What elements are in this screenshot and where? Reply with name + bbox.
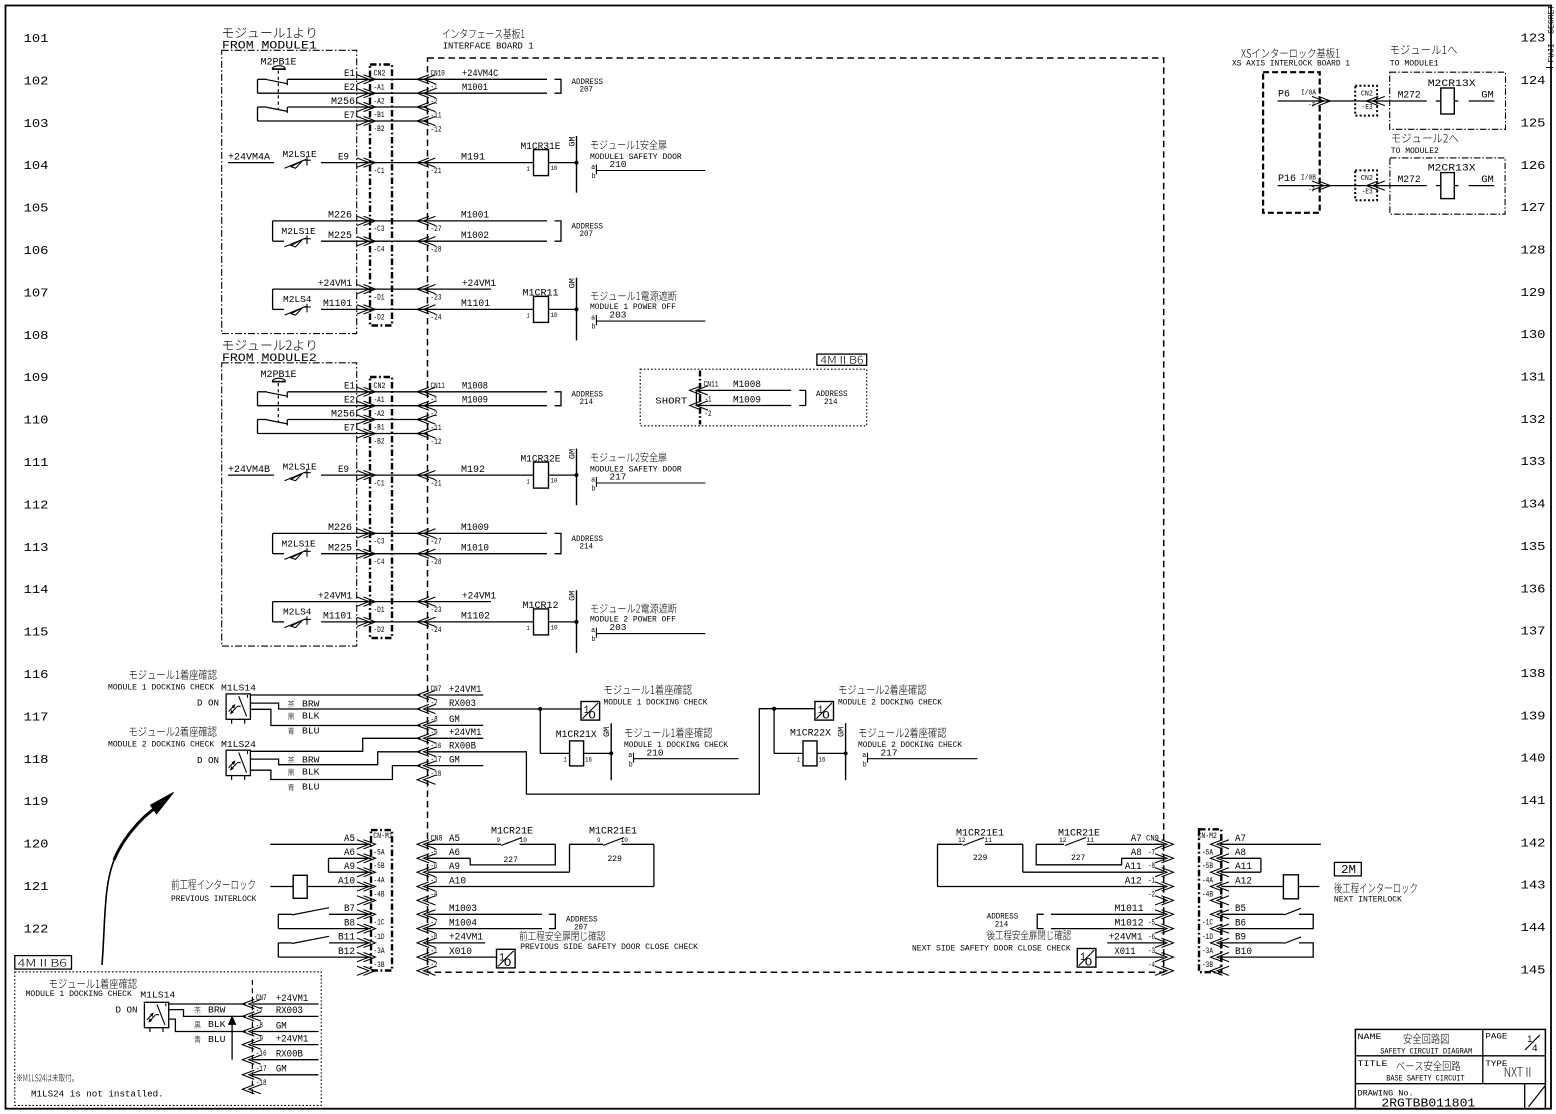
module2 limit switch M2LS1E symbol (row E9) — [304, 472, 311, 474]
CN-M2 pin arrow (female) — [1211, 854, 1230, 863]
wire A8 (interface side) — [1122, 857, 1164, 859]
module1 wire E1 — [288, 78, 548, 80]
svg-text:-C3: -C3 — [374, 538, 385, 547]
wire to M1CR22X pin 1 — [774, 752, 803, 754]
svg-text:M1101: M1101 — [323, 298, 352, 309]
CN-M2 pin arrow (female) — [1211, 924, 1230, 933]
svg-text:9: 9 — [597, 837, 601, 844]
connector CN7 line (variant, dashed) — [251, 980, 253, 1096]
module2 relay coil M1CR12 — [534, 609, 549, 635]
CN9 pin arrow (male) — [1155, 840, 1174, 849]
CN8 pin arrow (female) — [417, 910, 436, 919]
wire CN7-8 GM — [428, 724, 484, 726]
module1 contact pair E1/E2 bracket — [257, 79, 259, 93]
proximity sensor M1LS14 symbol — [239, 696, 247, 716]
module1 limit switch M2LS4 symbol — [306, 304, 308, 313]
module1 contact pair M226/M225 bracket — [272, 221, 274, 241]
module1 CN2 pin arrow (male) — [357, 285, 376, 294]
CN-M1 pin arrow (male) — [357, 882, 376, 891]
proximity sensor M1LS14 symbol (variant) — [151, 1013, 153, 1016]
module1 limit switch M2LS4 symbol — [304, 306, 311, 308]
CN9 pin arrow (male) — [1155, 896, 1174, 905]
svg-text:M1001: M1001 — [462, 81, 488, 93]
module1 wire M226 — [273, 220, 428, 222]
svg-text:CN-M2: CN-M2 — [1198, 833, 1217, 842]
svg-text:INTERFACE BOARD 1: INTERFACE BOARD 1 — [443, 40, 534, 51]
svg-text:CN11: CN11 — [704, 381, 719, 390]
wire A10 (interface side) — [428, 886, 654, 888]
svg-text:M1011: M1011 — [1115, 903, 1144, 914]
label next interlock (JP) — [1334, 882, 1417, 893]
module2 limit switch M2LS4 symbol — [285, 619, 307, 628]
module2 contact pair M256/E7 bracket — [257, 420, 259, 434]
module2 wire M226 — [273, 532, 428, 534]
svg-text:GM: GM — [276, 1020, 287, 1032]
svg-text:CN-M1: CN-M1 — [373, 833, 392, 842]
module2 CN2 pin arrow (male) — [357, 597, 376, 606]
CN8 pin arrow (female) — [417, 854, 436, 863]
relay coil M2CR13X — [1441, 173, 1455, 199]
module1 CN2 pin arrow (male) — [357, 102, 376, 111]
svg-text:10: 10 — [551, 624, 558, 631]
svg-text:-1D: -1D — [1202, 933, 1213, 942]
colour label BLK (black, M1LS24) — [288, 769, 294, 776]
connector CN11 line (SHORT variant, dash-dot) — [699, 371, 701, 425]
svg-text:+24VM1: +24VM1 — [318, 278, 352, 289]
svg-text:I/0A: I/0A — [1301, 89, 1317, 98]
connector CN2 box (XS, dotted) — [1355, 170, 1377, 200]
svg-text:-28: -28 — [431, 558, 442, 567]
relay coil M2CR13X — [1441, 88, 1455, 114]
svg-text:106: 106 — [24, 244, 49, 258]
svg-text:-3: -3 — [431, 877, 438, 886]
svg-text:A7: A7 — [1131, 833, 1142, 844]
svg-text:-6: -6 — [431, 862, 438, 871]
svg-text:A8: A8 — [1235, 847, 1246, 858]
svg-text:E2: E2 — [344, 82, 355, 93]
CN-M2 pin arrow (female) — [1211, 953, 1230, 962]
svg-text:-21: -21 — [431, 167, 442, 176]
svg-text:-3A: -3A — [1202, 947, 1213, 956]
wire loop 229 (down to A10) — [653, 844, 655, 886]
module2 wire E2 — [258, 405, 548, 407]
svg-text:M226: M226 — [328, 523, 352, 534]
relay M2CR13X pin stubs — [1436, 100, 1441, 102]
label next side safety door close check (JP) — [987, 930, 1071, 940]
svg-text:-7: -7 — [431, 699, 438, 708]
module1 wire relay M1CR11 to GM rail — [549, 308, 577, 310]
svg-text:B6: B6 — [1235, 917, 1246, 928]
module1 limit switch M2LS1E symbol (row E9) — [304, 159, 311, 161]
svg-text:207: 207 — [580, 86, 594, 94]
svg-text:136: 136 — [1521, 582, 1546, 596]
wire B9 (next stage side) — [1221, 942, 1284, 944]
svg-text:128: 128 — [1521, 243, 1546, 257]
wire CN7-17 GM — [428, 765, 484, 767]
module2 limit switch M2LS1E symbol (row E9) — [306, 470, 308, 479]
module2 wire M225 stub — [273, 553, 284, 555]
CN11 pin arrow (female) — [690, 401, 709, 410]
svg-text:GM: GM — [276, 1063, 287, 1075]
module1 CN2 pin arrow (male) — [357, 75, 376, 84]
label module-2 docking check (JP) — [130, 726, 217, 736]
svg-text:-C4: -C4 — [374, 246, 385, 255]
svg-text:-7: -7 — [1148, 848, 1155, 857]
wire A5 after contact — [520, 843, 556, 845]
wire B8 — [278, 928, 371, 930]
svg-text:203: 203 — [609, 310, 626, 321]
CN7 pin arrow (female) -17 — [417, 761, 436, 770]
CN8 pin arrow (female) — [417, 840, 436, 849]
svg-text:-C1: -C1 — [374, 480, 385, 489]
svg-text:M1009: M1009 — [461, 522, 489, 533]
module1 pushbutton M2PB1E mushroom head — [272, 66, 285, 69]
wire +24VM1 (row B11) — [428, 942, 486, 944]
CN7 pin arrow (variant) -9 — [242, 1040, 260, 1049]
proximity sensor M1LS14 symbol (variant) — [162, 1028, 164, 1032]
contact blade (B7 row) — [278, 913, 292, 915]
svg-text:b: b — [592, 636, 596, 644]
svg-text:CN8: CN8 — [431, 835, 443, 844]
svg-text:+24VM1: +24VM1 — [1109, 931, 1143, 942]
wire B11 — [329, 942, 371, 944]
module1 coil contact reference M1CR11 page 203 — [596, 320, 705, 322]
svg-text:CN10: CN10 — [431, 70, 445, 79]
address bracket 214 (rows B5/B6 right) — [1037, 914, 1044, 928]
coil contact reference M1CR22X page 217 — [867, 753, 869, 763]
svg-text:RX00B: RX00B — [449, 740, 476, 752]
colour label BLU (variant) — [194, 1036, 200, 1043]
colour label BLU (blue, M1LS24) — [288, 784, 294, 791]
wire A7 (interface side) — [1087, 843, 1164, 845]
svg-text:-A1: -A1 — [374, 396, 385, 405]
module2 CN2 pin arrow (male) — [357, 387, 376, 396]
svg-text:E9: E9 — [338, 151, 349, 162]
label: module-1 source header (JP) — [223, 27, 315, 38]
svg-text:B5: B5 — [1235, 903, 1246, 914]
module2 CN11 pin arrow (female) — [417, 387, 436, 396]
I/O flag previous side safety door — [498, 951, 514, 967]
proximity sensor M1LS14 symbol (variant) — [155, 1014, 159, 1016]
module1 coil contact reference M1CR31E page 210 — [596, 170, 705, 172]
svg-text:4: 4 — [1532, 1043, 1538, 1055]
svg-text:NAME: NAME — [1358, 1032, 1382, 1042]
svg-text:GM: GM — [449, 754, 460, 766]
wire CN11-1 (SHORT variant, M1008) — [696, 389, 791, 391]
svg-text:M1CR12: M1CR12 — [523, 601, 559, 612]
svg-text:FUJI SECRET: FUJI SECRET — [1548, 5, 1556, 63]
CN7 pin arrow (female) -18 — [417, 775, 436, 784]
I/O flag module-2 docking check — [815, 702, 834, 721]
svg-text:E2: E2 — [344, 394, 355, 405]
svg-text:-1: -1 — [431, 83, 438, 92]
module1 wire M256 — [288, 106, 428, 108]
module2 CN11 pin arrow row E9 (female) — [417, 471, 436, 480]
title block column divider (row 3) — [1524, 1084, 1526, 1109]
svg-text:-1C: -1C — [374, 919, 385, 928]
svg-text:203: 203 — [609, 622, 626, 633]
module1 wire M225 stub — [273, 240, 284, 242]
module2 CN2 pin arrow (male) — [357, 617, 376, 626]
module1 coil contact reference M1CR31E page 210 — [595, 165, 597, 175]
module2 wire M192 — [428, 474, 534, 476]
wire after M1CR21E1 — [622, 843, 654, 845]
CN-M2 pin arrow (female) — [1211, 868, 1230, 877]
module2 wire +24VM1 (module side) — [273, 601, 428, 603]
svg-text:114: 114 — [24, 583, 49, 597]
svg-text:M1001: M1001 — [461, 209, 489, 220]
XS interlock board box (dashed bold) — [1263, 72, 1320, 213]
wire stub (variant row -9) — [252, 1044, 318, 1046]
svg-text:MODULE 1 DOCKING CHECK: MODULE 1 DOCKING CHECK — [26, 990, 132, 999]
CN-M2 pin arrow (female) — [1211, 966, 1230, 975]
svg-text:M1009: M1009 — [462, 394, 488, 406]
svg-text:-7: -7 — [256, 1007, 263, 1016]
I/O flag module-1 docking check — [581, 702, 600, 721]
title block outer frame — [1355, 1029, 1545, 1109]
svg-text:-1: -1 — [431, 396, 438, 405]
svg-text:134: 134 — [1521, 497, 1546, 511]
svg-text:-12: -12 — [431, 438, 442, 447]
proximity sensor M1LS14 symbol — [247, 695, 249, 698]
svg-text:CN2: CN2 — [1361, 175, 1373, 183]
svg-text:-24: -24 — [431, 626, 442, 635]
svg-text:M1CR11: M1CR11 — [523, 289, 559, 300]
svg-text:-B1: -B1 — [374, 111, 385, 120]
module1 coil contact reference M1CR11 page 203 — [595, 315, 597, 325]
loop bracket A8/A11 (right) — [1260, 858, 1262, 872]
wire M1CR22X to GM rail — [817, 752, 846, 754]
svg-text:BLU: BLU — [302, 782, 319, 793]
CN7 pin arrow (female) -7 — [417, 704, 436, 713]
svg-text:B8: B8 — [344, 917, 355, 928]
svg-text:TO MODULE2: TO MODULE2 — [1391, 147, 1439, 156]
GM power rail (M1CR21X) — [610, 723, 612, 780]
svg-text:M2LS1E: M2LS1E — [282, 539, 317, 550]
svg-text:-23: -23 — [431, 606, 442, 615]
svg-text:NEXT SIDE SAFETY DOOR CLOSE CH: NEXT SIDE SAFETY DOOR CLOSE CHECK — [912, 944, 1071, 953]
CN-M2 pin arrow (female) — [1211, 910, 1230, 919]
svg-text:E7: E7 — [344, 109, 355, 120]
CN-M1 pin arrow (male) — [357, 924, 376, 933]
svg-text:120: 120 — [24, 837, 49, 851]
svg-text:227: 227 — [504, 856, 519, 865]
wire RX003 to I/O symbol — [540, 708, 581, 710]
module2 address bracket 214 (top) — [555, 392, 562, 406]
svg-text:M1102: M1102 — [461, 611, 490, 622]
svg-text:129: 129 — [1521, 286, 1546, 300]
contact M1CR21E blade (right) — [1065, 838, 1086, 846]
I/O flag next side safety door — [1077, 949, 1096, 968]
svg-text:116: 116 — [24, 668, 49, 682]
module2 wire relay M1CR32E to GM rail — [549, 474, 577, 476]
CN9 pin arrow (male) — [1155, 953, 1174, 962]
wire RX003 — [428, 708, 541, 710]
svg-text:-5: -5 — [1148, 919, 1155, 928]
svg-text:229: 229 — [973, 854, 988, 863]
module1 limit switch M2LS1E symbol (row E9) — [306, 157, 308, 166]
svg-text:M256: M256 — [331, 97, 355, 108]
svg-text:CN7: CN7 — [431, 685, 442, 694]
svg-text:1: 1 — [527, 478, 531, 486]
svg-text:B10: B10 — [1235, 946, 1252, 957]
CN-M2 pin arrow (female) — [1211, 840, 1230, 849]
svg-text:-2: -2 — [431, 410, 438, 419]
svg-text:-1: -1 — [431, 947, 438, 956]
svg-text:M2CR13X: M2CR13X — [1428, 163, 1477, 174]
svg-text:118: 118 — [24, 753, 49, 767]
module1 GM power rail (safety door row) — [576, 136, 578, 193]
module2 wire relay M1CR12 to GM rail — [549, 621, 577, 623]
svg-text:M1101: M1101 — [461, 298, 490, 309]
svg-text:112: 112 — [24, 498, 49, 512]
svg-text:-3: -3 — [1148, 947, 1155, 956]
colour label BRW (variant) — [194, 1006, 200, 1013]
wire B12 — [278, 956, 371, 958]
svg-text:-27: -27 — [431, 225, 442, 234]
svg-text:MODULE 1 DOCKING CHECK: MODULE 1 DOCKING CHECK — [604, 698, 708, 707]
svg-text:M226: M226 — [328, 211, 352, 222]
svg-text:139: 139 — [1521, 709, 1546, 723]
wire M1LS14 to CN7 (variant) — [169, 1003, 246, 1005]
svg-text:2M: 2M — [1341, 863, 1356, 876]
svg-text:E1: E1 — [344, 68, 355, 79]
junction node (M1CR21X GM) — [609, 751, 613, 755]
label XS axis interlock board 1 (JP) — [1241, 48, 1339, 58]
wire loop 227 (A5 to A6) — [470, 844, 555, 865]
svg-text:-8: -8 — [431, 716, 438, 725]
contact bracket B5/B6 — [1221, 914, 1313, 928]
svg-text:GM: GM — [449, 714, 460, 726]
svg-text:M2CR13X: M2CR13X — [1428, 78, 1477, 89]
svg-text:144: 144 — [1521, 921, 1546, 935]
svg-text:MODULE 2 DOCKING CHECK: MODULE 2 DOCKING CHECK — [858, 741, 962, 750]
svg-text:X011: X011 — [1115, 945, 1136, 957]
wire M1011 — [1051, 913, 1164, 915]
module1 address bracket 207 (middle) — [555, 221, 562, 241]
svg-text:BLK: BLK — [302, 767, 320, 778]
module1 pushbutton contact blade (M256 row) — [267, 107, 288, 111]
module2 limit switch M2LS4 symbol — [306, 616, 308, 625]
svg-text:-3B: -3B — [1202, 961, 1213, 970]
svg-text:10: 10 — [551, 312, 558, 319]
title block type value NXT II — [1505, 1067, 1530, 1076]
junction node (M1CR22X GM) — [844, 751, 848, 755]
title block title value (JP) base safety circuit — [1397, 1061, 1461, 1071]
svg-text:+24VM1: +24VM1 — [462, 590, 496, 601]
svg-text:CN11: CN11 — [431, 382, 446, 391]
wire A11 riser — [1022, 844, 1024, 872]
module2 pushbutton contact blade (M256 row) — [267, 420, 288, 424]
svg-text:M192: M192 — [461, 465, 485, 476]
svg-text:-4B: -4B — [374, 891, 385, 900]
module2 wire M1101 stub — [273, 621, 284, 623]
svg-text:a: a — [628, 752, 633, 760]
module1 wire +24VM1 (module side) — [273, 288, 428, 290]
CN-M2 pin arrow (female) — [1211, 882, 1230, 891]
module1 pushbutton contact blade (E1 row) — [267, 80, 288, 84]
module1 junction node (safety door row) — [575, 161, 579, 165]
module1 limit switch M2LS1E symbol (row M225) — [291, 239, 303, 247]
title block name value (JP) safety circuit diagram — [1404, 1033, 1449, 1043]
wire +24VM1 (row B9 right) — [1107, 942, 1164, 944]
colour label BLK (variant) — [194, 1021, 200, 1028]
svg-text:A7: A7 — [1235, 833, 1246, 844]
svg-text:117: 117 — [24, 710, 49, 724]
wire A11 (next stage side) — [1221, 871, 1261, 873]
svg-text:11: 11 — [985, 837, 993, 844]
wire A6 (interface side) — [428, 857, 471, 859]
relay coil M1CR22X — [803, 741, 817, 766]
svg-text:MODULE 1 DOCKING CHECK: MODULE 1 DOCKING CHECK — [624, 741, 728, 750]
svg-text:B11: B11 — [338, 931, 355, 942]
CN9 pin arrow (male) — [1155, 938, 1174, 947]
svg-text:O: O — [504, 957, 511, 970]
svg-text:-8: -8 — [256, 1022, 263, 1031]
wire stub (variant row CN7) — [252, 1003, 318, 1005]
svg-text:207: 207 — [580, 231, 594, 239]
proximity sensor M1LS14 symbol — [231, 719, 233, 723]
svg-text:137: 137 — [1521, 624, 1546, 638]
CN8 pin arrow (female) — [417, 896, 436, 905]
svg-text:M272: M272 — [1398, 174, 1421, 185]
svg-text:-A2: -A2 — [374, 410, 385, 419]
CN9 pin arrow (male) — [1155, 854, 1174, 863]
wire X010 to I/O — [428, 956, 497, 958]
svg-text:MODULE 2 DOCKING CHECK: MODULE 2 DOCKING CHECK — [108, 740, 214, 749]
wire M1CR21X to GM rail — [584, 752, 612, 754]
module1 wire M1002 — [428, 240, 548, 242]
svg-text:-D1: -D1 — [374, 606, 385, 615]
proximity sensor M1LS14 symbol (variant) — [149, 1015, 155, 1022]
CN-M2 pin arrow (female) — [1211, 896, 1230, 905]
svg-text:MODULE 2 POWER OFF: MODULE 2 POWER OFF — [590, 615, 676, 624]
svg-text:-4A: -4A — [1202, 877, 1213, 886]
module1 limit switch M2LS4 symbol — [285, 306, 307, 315]
CN-M1 pin arrow (male) — [357, 868, 376, 877]
svg-text:-2: -2 — [431, 98, 438, 107]
wire A9 riser to contact row — [569, 844, 571, 872]
proximity sensor M1LS24 symbol — [244, 776, 246, 780]
contact blade (B11 row) — [278, 942, 292, 944]
svg-text:-1D: -1D — [374, 933, 385, 942]
wire riser to I/O symbol (module2) — [774, 708, 815, 710]
svg-text:+24VM1: +24VM1 — [449, 727, 482, 739]
proximity sensor M1LS14 symbol (variant) — [165, 1003, 167, 1006]
svg-text:12: 12 — [1059, 837, 1067, 844]
wire GM (to module) — [1469, 185, 1495, 187]
svg-text:M1012: M1012 — [1115, 917, 1144, 928]
wire A6 (module side) — [329, 857, 372, 859]
svg-text:-D1: -D1 — [374, 294, 385, 303]
svg-text:MODULE1 SAFETY DOOR: MODULE1 SAFETY DOOR — [590, 153, 682, 162]
svg-text:M1CR31E: M1CR31E — [521, 141, 561, 152]
svg-text:b: b — [863, 761, 867, 769]
CN9 pin arrow (male) — [1155, 910, 1174, 919]
module1 CN2 pin arrow (male) — [357, 237, 376, 246]
svg-text:SAFETY CIRCUIT DIAGRAM: SAFETY CIRCUIT DIAGRAM — [1380, 1048, 1472, 1057]
module1 CN10 pin arrow (female) — [417, 75, 436, 84]
CN7 pin arrow (female) -8 — [417, 721, 436, 730]
module1 wire M1001 — [428, 220, 548, 222]
svg-text:-8: -8 — [431, 933, 438, 942]
svg-text:CN2: CN2 — [374, 382, 386, 391]
label module-1 docking check (JP) — [130, 669, 217, 679]
jumper arrow RX00B to RX003 (variant) — [231, 1022, 233, 1060]
svg-text:M2LS1E: M2LS1E — [283, 462, 318, 473]
svg-text:b: b — [592, 323, 596, 331]
label previous interlock (JP) — [171, 879, 254, 890]
